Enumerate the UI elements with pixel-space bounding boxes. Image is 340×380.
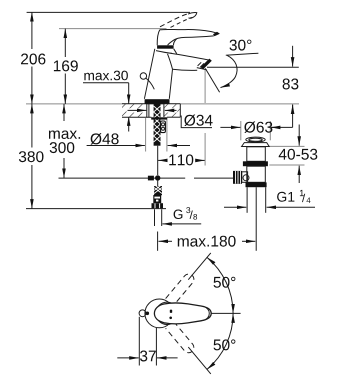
countertop slab with hatch (left of hole) (122, 104, 180, 117)
swivel rays (188, 253, 211, 280)
label G1 1/4 (waste thread) (224, 190, 315, 207)
ferrule (153, 195, 161, 203)
dimension Ø63 (220, 121, 292, 140)
dashed lever down 50 (166, 322, 196, 355)
30 degree spout angle (205, 40, 258, 93)
serrated knob (233, 171, 242, 184)
dimension 380 (19, 104, 44, 209)
label Ø34 (181, 115, 212, 128)
lever-top reference line (59, 28, 167, 30)
label G 3/8 (supply hose thread) (155, 207, 202, 226)
spout top edge (171, 53, 210, 60)
pop-up rod reference line / max.300 bottom (59, 177, 186, 179)
aerator outlet (197, 68, 207, 70)
seal ring 2 (246, 182, 267, 187)
top reference line (overall height) (27, 11, 190, 13)
countertop reference line (26, 103, 299, 105)
dimension 110 (center to spout outlet) (158, 70, 205, 166)
pop-up waste assembly (233, 137, 269, 251)
threaded shank (154, 104, 161, 146)
dimension 40-53 (waste clamping range) (269, 125, 317, 184)
seal ring (243, 161, 268, 166)
nut (152, 203, 164, 208)
plug dome (246, 137, 265, 142)
clamp screw (161, 121, 166, 133)
washer (151, 117, 167, 119)
dimension Ø48 (87, 118, 190, 152)
body upper (247, 147, 265, 162)
spout tip face (aerator) (201, 59, 212, 70)
dimension arrows for mounting hole (Ø34) (127, 108, 178, 112)
faucet body side view (140, 12, 220, 103)
dimension 169 (54, 29, 78, 104)
body lower (247, 166, 265, 182)
dimension 206 (21, 12, 45, 104)
swivel arc (207, 257, 233, 313)
waste centerline (255, 187, 257, 251)
base flange (145, 99, 170, 104)
lever handle (solid) (160, 29, 218, 33)
hub circle (156, 302, 178, 324)
lever pivot ring (157, 45, 174, 48)
centerline right (211, 312, 240, 314)
bottom reference line (hose end) (26, 208, 166, 210)
knob plan (139, 310, 146, 317)
label max.30 with leader to countertop (83, 71, 129, 132)
tailpipe (246, 187, 248, 213)
50 deg labels (214, 277, 236, 288)
solid lever blade (154, 303, 211, 324)
pull rod and supply hose (148, 146, 163, 209)
dashed lever up 50 (166, 272, 196, 305)
dimension max.180 (158, 232, 256, 251)
spout underside (173, 69, 198, 70)
dimension 83 (deck to aerator) (207, 46, 299, 128)
tee joint (148, 176, 154, 181)
pull-rod knob (140, 73, 146, 79)
plan view (bottom) (117, 253, 240, 374)
mounting below deck (147, 104, 167, 146)
dimension 37 (138, 317, 140, 366)
dimension max.300 (49, 104, 80, 178)
base circle (145, 299, 174, 328)
hose hatched segment (154, 186, 162, 195)
raised lever (dashed) (160, 14, 188, 27)
ball housing (242, 172, 248, 183)
body cone (144, 49, 154, 99)
wire pop-up rod arm right segment (194, 177, 234, 179)
